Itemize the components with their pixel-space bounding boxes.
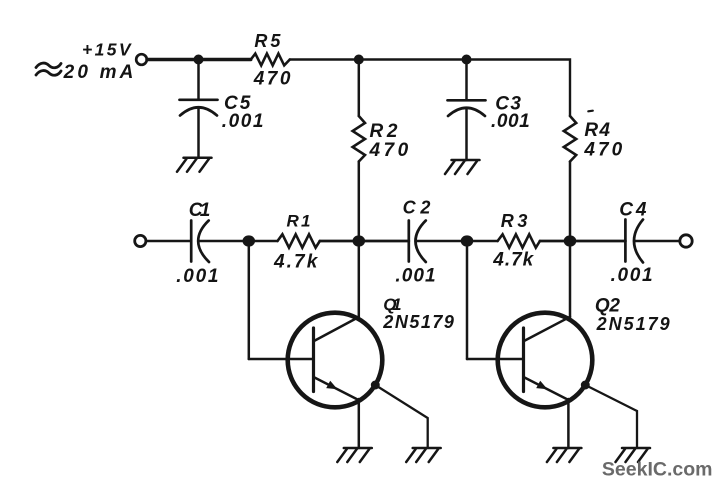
svg-text:SeekIC.com: SeekIC.com — [602, 459, 713, 481]
svg-text:C1: C1 — [189, 200, 211, 221]
svg-text:R4: R4 — [584, 120, 610, 141]
svg-text:470: 470 — [253, 69, 291, 90]
svg-text:.001: .001 — [395, 266, 435, 287]
svg-text:.001: .001 — [176, 266, 218, 287]
svg-text:R3: R3 — [501, 211, 528, 231]
svg-text:R5: R5 — [254, 31, 281, 51]
svg-text:C4: C4 — [619, 200, 647, 221]
svg-text:.001: .001 — [491, 111, 530, 132]
svg-text:470: 470 — [369, 140, 409, 161]
svg-text:R2: R2 — [370, 121, 398, 142]
svg-text:470: 470 — [583, 140, 622, 161]
svg-text:R1: R1 — [287, 212, 311, 231]
svg-text:C2: C2 — [403, 198, 431, 218]
svg-text:20 mA: 20 mA — [63, 62, 134, 83]
svg-text:4.7k: 4.7k — [492, 250, 534, 271]
svg-text:.001: .001 — [222, 111, 264, 132]
svg-text:4.7k: 4.7k — [273, 252, 319, 273]
svg-text:2N5179: 2N5179 — [382, 312, 454, 332]
svg-text:+15V: +15V — [82, 40, 132, 60]
svg-text:2N5179: 2N5179 — [596, 314, 670, 334]
svg-text:.001: .001 — [611, 265, 653, 286]
